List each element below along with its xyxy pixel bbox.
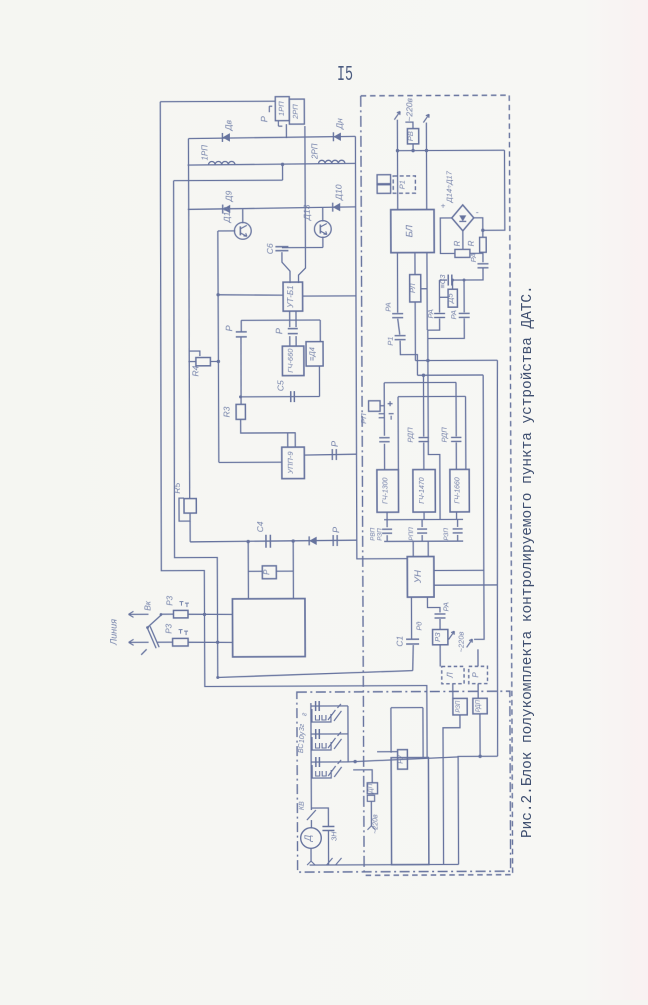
transistor Д13 [314,221,331,238]
svg-text:~220в: ~220в [404,97,414,121]
wire Л to РЗП [452,684,454,699]
svg-text:УН: УН [413,570,424,584]
contact g1 bus link [386,520,388,527]
resistor Р3 b [173,638,189,646]
relay box Р [262,566,276,579]
wire C6 to УТ-Б1 funnel [282,252,290,283]
relay РДП box [473,698,487,714]
wire Д13 emitter down [322,237,324,248]
svg-text:С1: С1 [395,636,405,647]
wire Р-line corner down [240,320,242,331]
diode Дв [222,133,230,141]
terminal line wire a [128,613,148,615]
transistor Д12 [234,222,251,239]
wire vertical x190 (Дв rail down) [188,210,190,499]
svg-text:~220в: ~220в [372,814,379,834]
wire bus Lb [417,374,483,376]
wire contact group hooks [269,106,282,126]
wire Д13 to C6 [282,247,323,249]
key Л dashed box [442,666,464,683]
wire C3 left [439,279,447,281]
wire C4 line [190,540,357,542]
svg-text:Л: Л [446,672,455,679]
capacitor С5 [290,391,292,402]
svg-text:РЛ: РЛ [408,283,417,294]
wire line2 (coil row) [188,163,356,165]
wire busA end to C1 [412,645,415,671]
wire group3 line to right half [348,757,458,762]
wire R5 to C4 line [189,521,191,542]
junction Lb g2 [422,374,425,377]
block УТ-Б1 [283,282,303,311]
wire РА to C3 line [454,268,483,280]
contact РА c2 [434,312,445,314]
wire phone left rail [310,703,313,827]
wire line4 (diode row 2) [188,207,356,210]
relay РВ box [407,129,418,144]
svg-text:ВС: ВС [298,743,305,754]
svg-text:РП: РП [359,413,368,424]
svg-text:С5: С5 [275,380,285,391]
junction line2/branch [281,163,284,166]
svg-text:РДП: РДП [440,427,449,443]
svg-text:УТ-Б1: УТ-Б1 [286,285,295,308]
resistor Р3 a [173,610,188,618]
wire R4 wiper jog [189,351,200,356]
svg-text:Дв: Дв [223,119,233,131]
microphone Д circle [301,828,322,849]
earphone ЗН bars [322,826,334,830]
svg-text:С4: С4 [255,521,265,532]
junction R4 right [217,360,220,363]
wire C5 right riser [318,366,320,396]
wire УН risers [413,541,428,556]
svg-text:Д5: Д5 [446,293,455,304]
wire mains a down [396,120,398,210]
wire g2 bottom [423,512,425,519]
svg-text:R5: R5 [172,482,182,493]
relay РУ box [398,750,408,770]
key Р dashed box [469,666,488,683]
wire bridge bottom lead [462,231,464,249]
svg-text:Р: Р [330,441,340,447]
diode Дн [333,133,341,141]
terminal ~220в right b [467,639,473,647]
junction y151 c [411,149,414,152]
svg-text:1РП: 1РП [277,101,286,116]
relay Р1 dashed box [393,176,415,193]
svg-text:С6: С6 [265,243,275,254]
svg-text:Д10: Д10 [334,184,344,201]
relay РЛ box [410,275,421,302]
wire РА contact drop [482,253,484,262]
wire top edge to relay contact box [160,100,275,103]
block under ДП [367,795,374,801]
wire mystery vertical [428,330,440,519]
svg-text:УПП-9: УПП-9 [286,451,295,475]
wire 2РП box long vertical [298,126,306,283]
resistor R4 [196,357,211,365]
svg-text:~220в: ~220в [457,631,466,652]
wire РА to РЗ [439,619,441,629]
junction y151 a [396,149,399,152]
wire РЛ down [414,302,416,361]
wire gen frame corner [398,396,466,469]
generator ГЧ-1300 [377,470,399,513]
junction 506 line [481,229,484,232]
wire РЛ side stub [421,288,427,290]
svg-text:Р: Р [471,672,480,678]
wire УН right a [434,569,484,571]
wire outer loop left (line terminals frame) [159,101,427,759]
telephone set dash-dot box [297,691,511,872]
wire Р-line horizontal [241,319,320,321]
contact Р (C4 line) [332,535,334,546]
junction РДП route [478,755,481,758]
preset marks a [179,602,189,608]
contact Р (УПП-9 right) [331,449,333,460]
svg-text:Р: Р [224,325,234,331]
wire РДП riser [477,684,479,699]
terminal line wire b [129,641,149,643]
svg-text:РУ: РУ [398,753,405,763]
terminal ~220в b [423,114,429,122]
svg-text:Д12: Д12 [222,207,232,224]
wire branch line2 down [282,164,284,180]
wire into УПП-9 pair [288,433,296,447]
wire right bus x357 [355,136,407,559]
diode bridge Д14-Д17 [452,205,474,231]
inductor 1РП coil [209,161,235,164]
wire phone bottom [310,863,459,866]
contact g3 bus link [457,519,459,526]
block ДП [367,783,377,794]
wire big box risers [248,541,293,599]
diode on C4 line [309,537,317,545]
wire РУ branch [391,708,423,758]
wire Lb right drop [473,375,484,639]
svg-text:Р: Р [331,527,341,533]
wire y757 link [458,756,498,864]
junction УТ-Б1 left [216,293,219,296]
svg-text:ЗН: ЗН [331,831,338,841]
svg-text:РЗП: РЗП [443,528,450,541]
relay РЗП box [453,698,467,715]
block Д5 [448,289,457,307]
contact Р1 c1b [395,335,406,337]
svg-text:ГЧ-1660: ГЧ-1660 [455,477,462,504]
svg-text:ДП: ДП [367,783,374,794]
terminal ДП [367,826,375,830]
wire g3 bottom [456,512,458,519]
wire РП link [380,405,384,407]
wire La right drop [496,360,499,756]
junction switch rail b [216,641,219,644]
svg-text:2РП: 2РП [310,143,319,160]
svg-text:РА: РА [426,309,435,318]
wire ЗН down [327,830,329,864]
svg-text:Дн: Дн [334,118,344,130]
wire c2 drop [438,280,440,312]
capacitor С4 [265,535,267,548]
wire line3 [174,179,283,181]
junction mystery La [426,359,429,362]
wire c3 riser [463,280,465,312]
relay group РП box [369,401,381,412]
svg-text:Р: Р [262,569,271,575]
svg-text:РВП: РВП [370,527,377,540]
wire R3b to box [188,641,233,643]
resistor R vertical [480,237,487,252]
bridge inner diode [459,215,466,221]
wire c1b down jog [400,341,417,376]
preset marks b [179,630,189,636]
generator ГЧ-1660 [450,469,469,512]
svg-text:РПП: РПП [408,527,415,541]
svg-text:3г: 3г [299,723,306,731]
svg-text:Рис.2.Блок полукомплекта контр: Рис.2.Блок полукомплекта контролируемого… [519,285,536,838]
wire R4 leads [188,360,218,362]
svg-text:РДП: РДП [476,699,482,712]
capacitor С6 [275,246,288,248]
switch hinge dots [160,613,163,616]
junction switch rail a [203,613,206,616]
wire УН bottom a (C1) [410,597,412,638]
wire Р box leads [248,570,293,572]
capacitor С1 [406,638,419,640]
wire Д5 top [452,280,454,289]
contact Р (R3 branch) [236,332,247,337]
inductor 2РП coil [319,160,345,163]
wire switch to R3a [161,613,173,615]
wire R3a to box [188,613,233,615]
contact ГЧ1660 top [451,436,461,438]
svg-text:КВ: КВ [299,801,306,810]
wire bus Lc [384,381,456,383]
ringer group 3 [311,761,348,763]
contact РА (УН) [434,613,445,615]
power block БЛ [391,210,434,253]
terminal marks bottom [327,858,342,865]
switch Вк blades [141,615,162,655]
wire bus D2 [384,540,463,542]
wire РВ leads [405,122,413,151]
wire РЗ to Л [439,645,441,667]
contact on rail (РП group) [379,437,389,439]
svg-text:РА: РА [449,310,458,319]
terminal ~220в right a [449,631,455,639]
wire УН right b [434,584,497,586]
wire ГЧ-1660 top [455,382,457,469]
wire Д12 base left [218,230,235,232]
junction C5 left [239,395,242,398]
svg-text:ГЧ-660: ГЧ-660 [286,348,295,373]
terminal arrow b [129,639,134,645]
svg-text:≡Д4: ≡Д4 [307,347,316,361]
wire БЛ bottom mid [414,253,416,275]
svg-text:Р: Р [259,116,269,122]
ringer group 2 [311,733,348,735]
svg-text:+: + [441,201,446,210]
contact ГЧ1470 top [419,437,429,439]
svg-text:Р: Р [274,328,284,334]
wire БЛ third lead [426,253,428,331]
block line set (big box) [232,599,305,657]
svg-text:Рд: Рд [415,621,424,630]
connector pads Р1 [377,175,391,184]
svg-text:Д13: Д13 [302,204,312,221]
wire bus D1 [384,518,463,520]
svg-text:Р3: Р3 [165,623,174,633]
svg-text:Р1: Р1 [386,337,395,346]
wire right rail groups [347,706,349,762]
generator ГЧ-1470 [413,470,435,513]
svg-text:R4: R4 [190,365,200,376]
contact g2 bus link [421,520,423,527]
wire РУ left stub [377,751,397,753]
svg-text:2РП: 2РП [291,104,300,120]
wire c1 between [398,319,400,335]
wire Р key riser [477,649,479,666]
block Д4 [306,342,323,366]
wire Д12 collector up [242,209,244,223]
wire R5 loop [179,498,190,521]
wire УПП-9 left [219,461,282,463]
svg-text:РА: РА [384,302,393,311]
svg-text:R: R [467,240,476,246]
diode Д9 [223,205,231,213]
wire switch to R3b [158,641,173,643]
wire long line y151 [397,149,504,151]
svg-text:РЗП: РЗП [377,528,384,541]
svg-text:I5: I5 [337,64,353,87]
svg-text:ГЧ-1300: ГЧ-1300 [383,477,390,504]
wire bus La [415,359,497,361]
wire C5 line [241,396,320,398]
junction C4 line a [246,540,249,543]
dashed enclosure КП [361,95,513,875]
svg-text:10у: 10у [299,731,306,743]
svg-text:1РП: 1РП [200,145,209,161]
wire ГЧ-1470 top [422,375,424,469]
svg-text:РЗП: РЗП [456,700,462,713]
svg-text:R: R [453,240,462,246]
svg-text:R3: R3 [222,406,232,417]
wire РЗП bottom route [443,715,461,865]
svg-text:Р3: Р3 [165,595,174,605]
wire 506 riser [482,150,504,230]
svg-text:Вк: Вк [142,600,152,611]
block УПП-9 [282,447,305,479]
wire УТ-Б1 left line [218,293,283,296]
block phone right rect [391,758,429,865]
capacitor С3 [447,275,449,286]
svg-text:ГЧ-1470: ГЧ-1470 [419,477,426,504]
contact РА c1 [392,313,403,315]
svg-text:Р1: Р1 [398,180,407,189]
svg-text:Д14÷Д17: Д14÷Д17 [445,170,454,203]
relay contact 1RP (box) [275,97,289,121]
terminal arrow a [128,611,133,617]
wire Д4 top to Р-line [319,320,321,342]
junction busA x217 [216,676,219,679]
wire УПП-9 right [304,453,357,456]
diode Д10 [333,203,341,211]
wire C1 bottom [412,644,414,646]
wire outer loop second (inner frame) [173,180,413,678]
wire ЗН branch top [311,808,328,826]
wire contact to R3 [240,337,242,405]
wire line1 (diode row top) [188,136,355,138]
svg-text:Линия: Линия [109,619,119,646]
wire УТ-Б1 to Р contact pair [290,311,296,346]
junction Д5 top [451,279,454,282]
svg-text:г: г [301,712,308,716]
svg-text:Д: Д [303,834,313,842]
svg-text:РА: РА [441,602,450,611]
svg-text:Д9: Д9 [224,190,234,202]
wire c2 down [428,318,440,330]
terminal mic [307,861,315,865]
wire 1РП box to line1 [285,124,287,138]
svg-text:-: - [476,207,479,217]
relay contact 2RP (box) [289,99,304,124]
wire ДП bottom [370,801,372,825]
contact РА c3 [459,312,470,314]
dash-dot divider (left edge) [361,96,364,875]
wire c3 down [428,318,465,338]
contact КВ slash [307,810,316,820]
resistor R horizontal [455,249,470,257]
svg-text:РА: РА [469,253,478,262]
terminal ~220в a [394,111,400,119]
contact Р (between УТ-Б1 and ГЧ-660) [288,329,298,334]
junction group3 line [353,760,356,763]
wire РДП bottom route [479,714,481,756]
relay РЗ box [433,629,448,644]
resistor R3 [236,404,245,419]
wire УН bottom b [427,597,440,613]
generator ГЧ-660 [282,346,304,376]
wire corner line1-left [187,139,189,210]
resistor R5 [184,499,196,514]
wire Д13 collector up [322,208,324,222]
contact РА (bridge) [477,263,488,265]
ringer group 1 [311,705,348,707]
wire Д5 left stub [440,296,449,298]
wire УТ-Б1 right line [303,295,356,297]
amplifier УН [407,557,434,598]
wire g1 bottom [386,512,388,519]
wire Rh to Rv [470,252,483,253]
junction C4 line b [291,539,294,542]
svg-text:БЛ: БЛ [404,224,415,237]
wire bridge left net [440,218,455,254]
junction c3 top [463,278,466,281]
wire Lc left rail to ГЧ-1300 [383,383,385,470]
wire vertical x219 (Д12 base rail) [218,231,219,462]
wire mains b down [425,123,427,210]
svg-text:РВ: РВ [406,131,415,141]
wire БЛ bottom left [396,253,398,313]
contact РП marks [379,401,394,420]
junction y151 b [425,149,428,152]
svg-text:РДП: РДП [406,427,415,443]
wire R3 down and right [241,419,296,433]
wire mic bottom [310,848,312,861]
wire bridge right net [474,218,483,238]
wire ДП top [353,770,372,783]
